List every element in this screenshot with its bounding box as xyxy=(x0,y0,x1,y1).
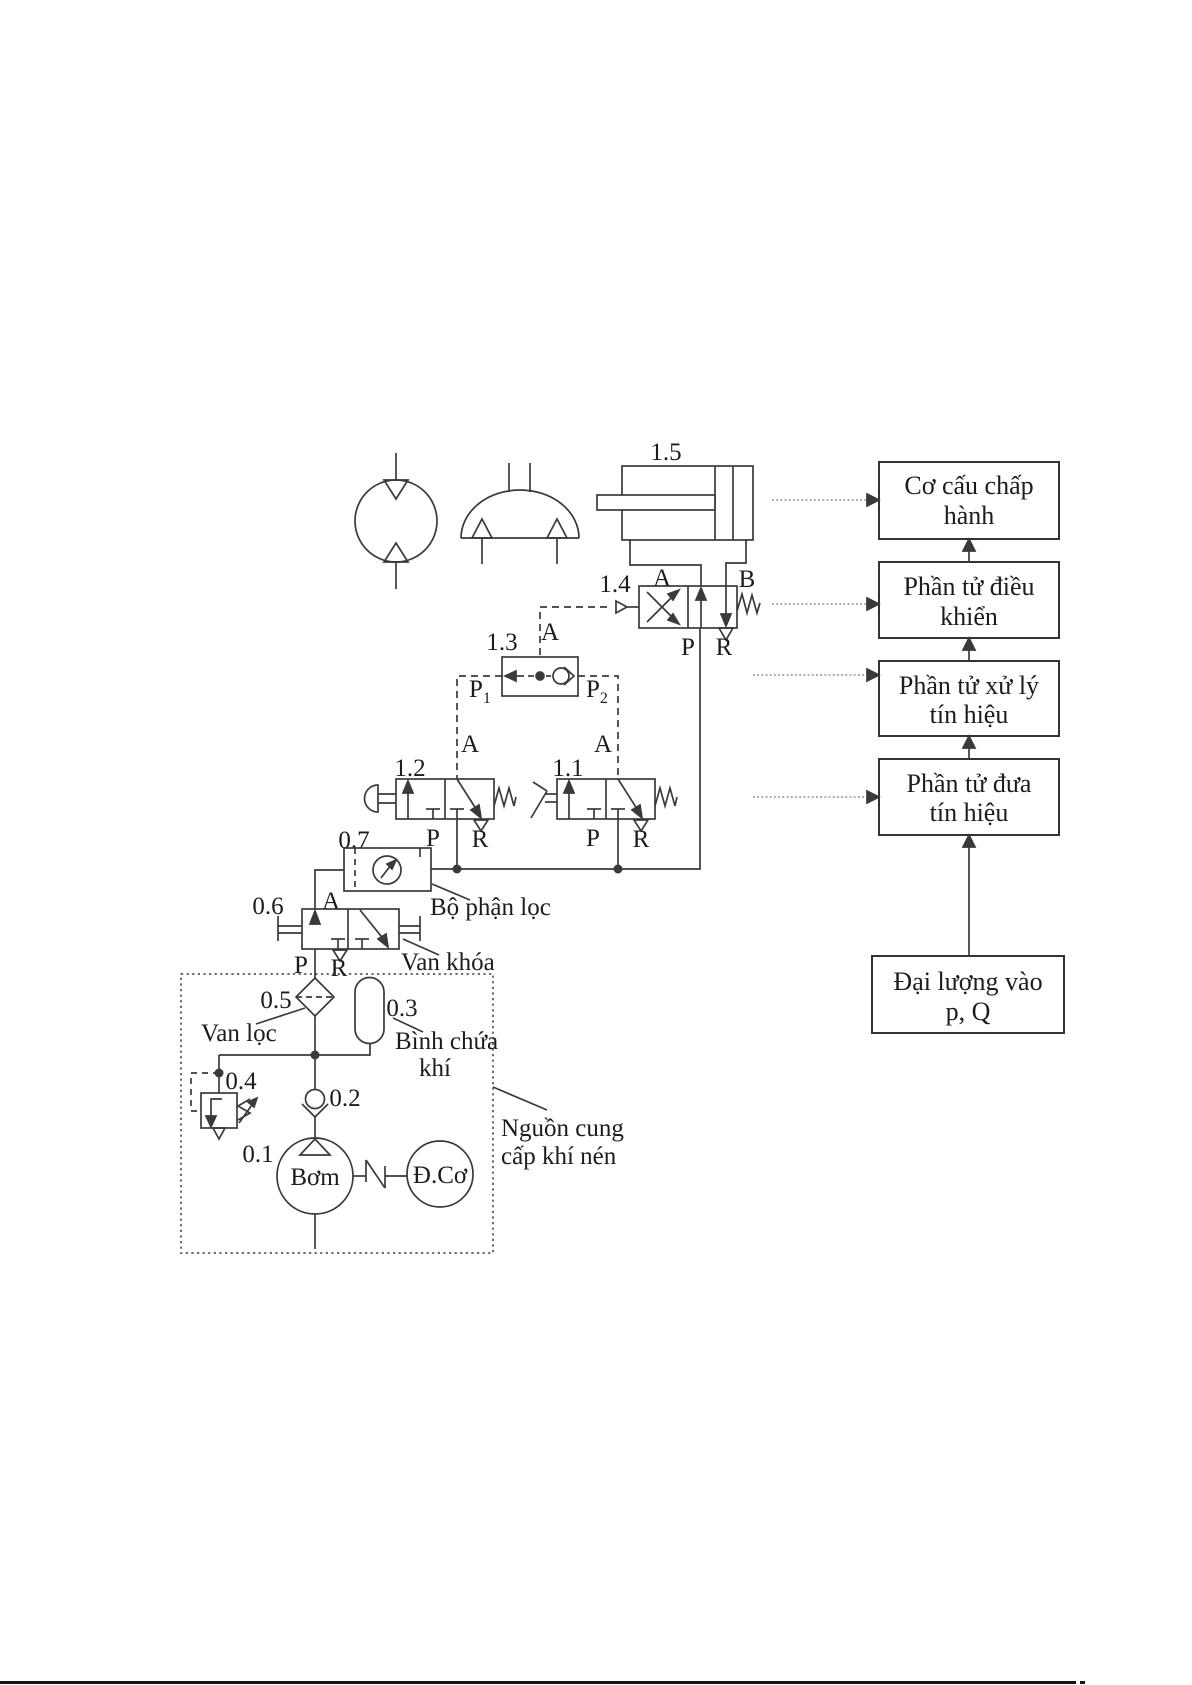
svg-text:khiển: khiển xyxy=(940,602,998,631)
air motor (rotary actuator circle) xyxy=(355,453,437,589)
svg-text:0.2: 0.2 xyxy=(329,1085,360,1112)
valve 1.4 body (4/2 impulse valve) xyxy=(639,586,737,628)
wire tee to relief valve 0.4 xyxy=(218,1055,220,1093)
dotted arrow to box2 xyxy=(772,598,879,610)
callout line Binh chua khi xyxy=(393,1018,423,1032)
wire P of 1.1 to rail xyxy=(617,819,619,869)
svg-text:P: P xyxy=(294,952,308,979)
dotted arrow to box4 xyxy=(753,791,879,803)
svg-text:Bộ phận lọc: Bộ phận lọc xyxy=(430,894,551,921)
junction dot (1.2 P) xyxy=(453,865,462,874)
svg-text:1.2: 1.2 xyxy=(394,755,425,782)
callout line Nguon cung cap xyxy=(493,1087,547,1110)
dashed line P1 to valve 1.2 xyxy=(457,676,502,779)
junction dot (reservoir tee) xyxy=(311,1051,320,1060)
pilot dashed line of 0.4 xyxy=(191,1073,219,1111)
filter unit 0.7 (service unit with gauge) xyxy=(344,848,431,891)
svg-text:A: A xyxy=(594,731,612,758)
spring of valve 1.1 xyxy=(655,788,677,806)
svg-text:Đ.Cơ: Đ.Cơ xyxy=(413,1162,468,1189)
arrow box4 to box3 xyxy=(963,736,975,759)
exhaust triangle of 0.4 xyxy=(213,1128,225,1139)
svg-text:Bình chứa: Bình chứa xyxy=(395,1028,498,1055)
svg-text:1.1: 1.1 xyxy=(552,755,583,782)
svg-text:Phần tử xử lý: Phần tử xử lý xyxy=(899,671,1039,700)
flow box 2: Phan tu dieu khien xyxy=(879,562,1059,638)
flow box 5: Dai luong vao p,Q xyxy=(872,956,1064,1033)
dashed line P2 to valve 1.1 xyxy=(578,676,618,779)
wire cylinder B port to valve 1.4 xyxy=(726,540,746,586)
svg-text:B: B xyxy=(739,566,756,593)
flow box 3: Phan tu xu ly tin hieu xyxy=(879,661,1059,736)
wire filter to junction xyxy=(314,1016,316,1089)
svg-text:R: R xyxy=(716,634,733,661)
spring of valve 1.4 xyxy=(737,594,760,613)
svg-text:A: A xyxy=(322,888,340,915)
electric motor circle xyxy=(407,1141,473,1207)
arrow box3 to box2 xyxy=(963,638,975,661)
valve 1.2 body (3/2 push-button valve) xyxy=(396,779,494,819)
svg-text:1.3: 1.3 xyxy=(486,629,517,656)
svg-text:Van khóa: Van khóa xyxy=(401,949,495,976)
svg-text:p, Q: p, Q xyxy=(946,997,991,1026)
svg-text:P: P xyxy=(681,634,695,661)
semi-rotary actuator (dome) xyxy=(461,463,579,564)
supply source dotted box xyxy=(181,974,493,1253)
svg-text:1.4: 1.4 xyxy=(599,571,631,598)
arrow box5 to box4 xyxy=(963,835,975,956)
lever actuator of 1.1 xyxy=(531,782,557,818)
pilot triangle of 1.4 xyxy=(616,601,639,613)
shuttle valve 1.3 (OR) xyxy=(502,657,578,696)
pilot line from shuttle 1.3 to valve 1.4 xyxy=(540,607,612,655)
check valve 0.2 xyxy=(302,1090,328,1140)
svg-text:Bơm: Bơm xyxy=(290,1164,340,1191)
exhaust R triangle of 0.6 xyxy=(333,950,347,961)
wire 0.7 to valve 0.6 A xyxy=(315,870,344,909)
wire cylinder A port to valve 1.4 xyxy=(630,540,701,586)
supply rail wire (0.7 to valve 1.4 P) xyxy=(431,628,700,869)
svg-text:1.5: 1.5 xyxy=(650,439,681,466)
svg-text:Phần tử đưa: Phần tử đưa xyxy=(907,769,1032,798)
arrow box2 to box1 xyxy=(963,539,975,562)
svg-text:R: R xyxy=(633,826,650,853)
svg-text:Cơ cấu chấp: Cơ cấu chấp xyxy=(904,471,1033,500)
svg-text:Đại lượng vào: Đại lượng vào xyxy=(893,967,1042,996)
relief valve 0.4 body xyxy=(201,1093,237,1128)
filter 0.5 (diamond) xyxy=(296,978,334,1016)
exhaust R triangle of 1.4 xyxy=(719,628,733,640)
junction dot (1.1 P) xyxy=(614,865,623,874)
callout line Bo phan loc xyxy=(432,884,470,900)
svg-text:0.5: 0.5 xyxy=(260,987,291,1014)
svg-text:tín hiệu: tín hiệu xyxy=(930,700,1009,729)
manual actuator right (0.6) xyxy=(399,916,420,941)
dotted arrow to box1 xyxy=(772,494,879,506)
pump 0.1 (compressor circle) xyxy=(277,1138,353,1214)
svg-text:Nguồn cung: Nguồn cung xyxy=(501,1115,624,1142)
svg-text:P1: P1 xyxy=(469,676,491,707)
svg-text:P2: P2 xyxy=(586,676,608,707)
svg-text:A: A xyxy=(653,565,671,592)
svg-text:0.7: 0.7 xyxy=(338,827,369,854)
svg-text:A: A xyxy=(541,619,559,646)
svg-text:0.4: 0.4 xyxy=(225,1068,257,1095)
svg-text:P: P xyxy=(586,825,600,852)
flow box 1: Co cau chap hanh xyxy=(879,462,1059,539)
svg-text:0.1: 0.1 xyxy=(242,1141,273,1168)
svg-text:R: R xyxy=(331,955,348,982)
dotted arrow to box3 xyxy=(753,669,879,681)
svg-text:0.3: 0.3 xyxy=(386,995,417,1022)
svg-text:tín hiệu: tín hiệu xyxy=(930,798,1009,827)
svg-text:0.6: 0.6 xyxy=(252,893,283,920)
push button actuator of 1.2 xyxy=(365,785,397,812)
svg-text:Phần tử điều: Phần tử điều xyxy=(903,572,1034,601)
manual actuator left (0.6) xyxy=(278,916,302,941)
junction dot (0.4 pilot) xyxy=(215,1069,224,1078)
svg-text:A: A xyxy=(461,731,479,758)
air reservoir 0.3 (capsule) xyxy=(355,978,384,1044)
shaft coupling symbol xyxy=(353,1160,407,1188)
valve 1.1 body (3/2 lever valve) xyxy=(557,779,655,819)
svg-text:khí: khí xyxy=(419,1055,451,1082)
cylinder 1.5 (double-acting) xyxy=(597,466,753,540)
svg-text:R: R xyxy=(472,826,489,853)
flow box 4: Phan tu dua tin hieu xyxy=(879,759,1059,835)
callout line Van khoa xyxy=(403,939,439,955)
page footer rule xyxy=(0,1681,1085,1684)
callout line Van loc xyxy=(256,1008,305,1024)
svg-text:hành: hành xyxy=(944,501,995,530)
spring of 0.4 (adjustable) xyxy=(238,1098,257,1123)
main vertical supply wire xyxy=(314,949,316,978)
wire P of 1.2 to rail xyxy=(456,819,458,869)
valve 0.6 body (3/2 shut-off valve) xyxy=(302,909,399,949)
svg-text:cấp khí nén: cấp khí nén xyxy=(501,1143,617,1170)
exhaust R triangle of 1.1 xyxy=(634,820,648,831)
pump suction wire xyxy=(314,1214,316,1249)
wire reservoir to tee xyxy=(219,1044,370,1055)
exhaust R triangle of 1.2 xyxy=(474,820,488,831)
svg-text:Van lọc: Van lọc xyxy=(201,1020,277,1047)
spring of valve 1.2 xyxy=(494,788,516,806)
